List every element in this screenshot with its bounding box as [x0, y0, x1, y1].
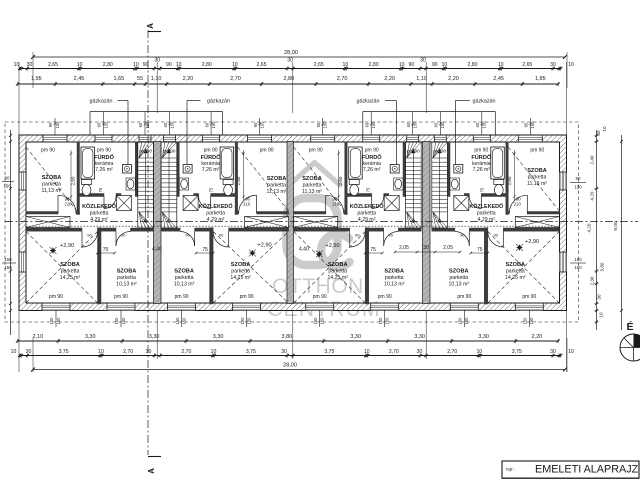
svg-text:SZOBA: SZOBA — [328, 262, 348, 268]
svg-text:150: 150 — [240, 317, 245, 325]
svg-text:gázkazán: gázkazán — [207, 99, 230, 105]
svg-text:2,20: 2,20 — [384, 76, 395, 82]
svg-text:SZOBA: SZOBA — [384, 269, 404, 275]
svg-text:90: 90 — [460, 233, 465, 238]
svg-text:2,70: 2,70 — [230, 76, 241, 82]
svg-text:2,40: 2,40 — [590, 155, 595, 164]
svg-text:SZOBA: SZOBA — [42, 175, 62, 181]
svg-text:pm 90: pm 90 — [365, 148, 379, 154]
svg-text:3,30: 3,30 — [414, 334, 425, 340]
svg-text:28,00: 28,00 — [283, 363, 297, 369]
svg-text:11,13 m²: 11,13 m² — [266, 189, 286, 195]
svg-text:75: 75 — [370, 247, 376, 253]
svg-text:2,80: 2,80 — [369, 62, 379, 68]
svg-text:2,80: 2,80 — [202, 62, 212, 68]
svg-text:150: 150 — [114, 317, 119, 325]
svg-text:30: 30 — [420, 58, 426, 64]
svg-text:60: 60 — [406, 122, 411, 127]
svg-text:60: 60 — [97, 122, 102, 127]
svg-text:+2,90: +2,90 — [257, 243, 271, 249]
svg-text:90: 90 — [388, 233, 393, 238]
svg-text:1,95: 1,95 — [31, 76, 42, 82]
svg-text:10: 10 — [133, 62, 139, 68]
svg-text:2,65: 2,65 — [522, 62, 532, 68]
svg-text:pm 90: pm 90 — [175, 294, 189, 300]
svg-text:150: 150 — [458, 317, 463, 325]
svg-text:2,45: 2,45 — [493, 76, 504, 82]
svg-text:2,70: 2,70 — [389, 349, 399, 355]
svg-text:4,40: 4,40 — [152, 247, 162, 253]
svg-text:60: 60 — [434, 122, 439, 127]
svg-text:4,20: 4,20 — [587, 223, 592, 232]
svg-text:90: 90 — [253, 122, 258, 127]
svg-text:150: 150 — [574, 185, 582, 190]
svg-text:parketta: parketta — [61, 269, 80, 275]
svg-text:SZOBA: SZOBA — [302, 176, 322, 182]
svg-text:28,00: 28,00 — [284, 50, 298, 56]
svg-text:30: 30 — [550, 62, 556, 68]
svg-text:pm 90: pm 90 — [204, 148, 218, 154]
svg-text:1,85: 1,85 — [535, 76, 546, 82]
svg-text:SZOBA: SZOBA — [527, 168, 547, 174]
svg-text:7,26 m²: 7,26 m² — [473, 167, 491, 173]
svg-text:4,29 m²: 4,29 m² — [478, 217, 496, 223]
svg-text:pm 90: pm 90 — [474, 148, 488, 154]
svg-text:KÖZLEKEDŐ: KÖZLEKEDŐ — [82, 203, 116, 210]
svg-text:pm 90: pm 90 — [407, 149, 420, 154]
svg-text:150: 150 — [103, 121, 108, 129]
svg-text:2,60: 2,60 — [507, 176, 512, 185]
svg-text:150: 150 — [320, 317, 325, 325]
svg-text:parketta: parketta — [117, 275, 136, 281]
svg-text:75: 75 — [209, 187, 214, 192]
svg-text:3,75: 3,75 — [324, 349, 334, 355]
svg-text:SZOBA: SZOBA — [267, 176, 287, 182]
svg-text:+2,90: +2,90 — [60, 243, 74, 249]
svg-text:10: 10 — [599, 312, 604, 318]
svg-text:90: 90 — [432, 62, 438, 68]
svg-text:2,05: 2,05 — [399, 245, 409, 251]
svg-text:150: 150 — [4, 265, 12, 270]
svg-text:30: 30 — [596, 130, 601, 136]
svg-text:KÖZLEKEDŐ: KÖZLEKEDŐ — [469, 203, 503, 210]
svg-text:150: 150 — [121, 317, 126, 325]
svg-text:150: 150 — [482, 121, 487, 129]
svg-text:90: 90 — [5, 176, 10, 181]
svg-text:pm 90: pm 90 — [522, 294, 536, 300]
svg-text:150: 150 — [145, 121, 150, 129]
svg-text:4,20: 4,20 — [590, 191, 595, 200]
svg-text:SZOBA: SZOBA — [231, 262, 251, 268]
svg-text:30: 30 — [146, 349, 152, 355]
svg-text:60: 60 — [204, 122, 209, 127]
svg-text:gázkazán: gázkazán — [356, 99, 379, 105]
svg-text:pm 90: pm 90 — [309, 148, 323, 154]
svg-text:+2,90: +2,90 — [325, 243, 339, 249]
svg-text:2,70: 2,70 — [447, 349, 457, 355]
svg-text:11,13 m²: 11,13 m² — [41, 188, 61, 194]
svg-text:2,20: 2,20 — [532, 334, 543, 340]
svg-text:2,60: 2,60 — [236, 176, 241, 185]
svg-text:30: 30 — [597, 294, 602, 300]
svg-text:90: 90 — [166, 62, 172, 68]
svg-text:150: 150 — [371, 121, 376, 129]
svg-text:pm 90: pm 90 — [41, 148, 55, 154]
svg-text:A: A — [147, 468, 156, 474]
svg-text:SZOBA: SZOBA — [60, 262, 80, 268]
svg-text:2,45: 2,45 — [74, 76, 85, 82]
svg-text:90: 90 — [121, 233, 126, 238]
svg-text:10: 10 — [343, 62, 349, 68]
svg-text:2,05: 2,05 — [443, 245, 453, 251]
svg-text:2,80: 2,80 — [467, 62, 477, 68]
svg-text:90: 90 — [219, 233, 224, 238]
svg-text:2,30: 2,30 — [590, 276, 595, 285]
svg-text:A: A — [146, 23, 155, 29]
svg-text:gázkazán: gázkazán — [472, 99, 495, 105]
svg-text:1,10: 1,10 — [416, 76, 427, 82]
svg-text:10: 10 — [442, 62, 448, 68]
svg-text:150: 150 — [574, 257, 582, 262]
svg-text:10: 10 — [176, 62, 182, 68]
svg-text:3,30: 3,30 — [478, 334, 489, 340]
svg-text:4,40: 4,40 — [299, 247, 309, 253]
svg-text:150: 150 — [323, 121, 328, 129]
svg-text:90: 90 — [87, 233, 92, 238]
svg-text:90: 90 — [143, 62, 149, 68]
svg-text:10: 10 — [77, 62, 83, 68]
svg-text:150: 150 — [181, 317, 186, 325]
svg-text:+2,90: +2,90 — [525, 239, 539, 245]
svg-text:2,65: 2,65 — [256, 62, 266, 68]
svg-text:3,80: 3,80 — [282, 334, 293, 340]
svg-text:75: 75 — [477, 247, 483, 253]
svg-text:60: 60 — [138, 122, 143, 127]
svg-text:SZOBA: SZOBA — [117, 269, 137, 275]
svg-text:4,29 m²: 4,29 m² — [358, 217, 376, 223]
svg-text:2,60: 2,60 — [338, 176, 343, 185]
svg-text:10: 10 — [14, 62, 20, 68]
svg-text:150: 150 — [169, 121, 174, 129]
svg-text:150: 150 — [464, 317, 469, 325]
svg-text:14,25 m²: 14,25 m² — [327, 275, 348, 281]
svg-text:150: 150 — [3, 184, 11, 189]
svg-text:11,13 m²: 11,13 m² — [302, 189, 322, 195]
svg-text:SZOBA: SZOBA — [506, 262, 526, 268]
svg-text:150: 150 — [175, 317, 180, 325]
svg-text:3,30: 3,30 — [213, 334, 224, 340]
svg-text:3,30: 3,30 — [350, 334, 361, 340]
svg-text:parketta: parketta — [385, 275, 404, 281]
svg-text:rajz :: rajz : — [506, 467, 515, 472]
svg-text:10,13 m²: 10,13 m² — [116, 282, 137, 288]
svg-text:210: 210 — [243, 202, 251, 207]
svg-text:150: 150 — [385, 317, 390, 325]
svg-text:pm 90: pm 90 — [260, 148, 274, 154]
svg-text:30: 30 — [423, 245, 429, 251]
svg-text:30: 30 — [287, 58, 293, 64]
svg-text:parketta: parketta — [175, 275, 194, 281]
svg-text:SZOBA: SZOBA — [449, 269, 469, 275]
svg-text:150: 150 — [49, 317, 54, 325]
svg-text:pm 90: pm 90 — [49, 294, 63, 300]
svg-text:7,26 m²: 7,26 m² — [363, 167, 381, 173]
svg-text:FÜRDŐ: FÜRDŐ — [201, 154, 222, 161]
svg-text:2,65: 2,65 — [314, 62, 324, 68]
svg-text:gázkazán: gázkazán — [89, 99, 112, 105]
svg-text:2,70: 2,70 — [337, 76, 348, 82]
svg-text:150: 150 — [211, 121, 216, 129]
svg-text:3,30: 3,30 — [149, 334, 160, 340]
svg-text:1,65: 1,65 — [113, 76, 124, 82]
svg-text:2,65: 2,65 — [48, 62, 58, 68]
svg-text:KÖZLEKEDŐ: KÖZLEKEDŐ — [350, 203, 384, 210]
svg-text:75: 75 — [202, 247, 208, 253]
svg-text:parketta: parketta — [231, 269, 250, 275]
svg-text:150: 150 — [440, 121, 445, 129]
svg-text:10,13 m²: 10,13 m² — [449, 282, 470, 288]
svg-text:2,80: 2,80 — [103, 62, 113, 68]
svg-text:14,25 m²: 14,25 m² — [230, 275, 251, 281]
svg-text:150: 150 — [378, 317, 383, 325]
svg-text:75: 75 — [479, 187, 484, 192]
svg-text:210: 210 — [65, 202, 73, 207]
svg-text:14,25 m²: 14,25 m² — [505, 275, 526, 281]
svg-text:10: 10 — [364, 349, 370, 355]
svg-text:150: 150 — [529, 317, 534, 325]
svg-text:pm 90: pm 90 — [378, 294, 392, 300]
svg-text:FÜRDŐ: FÜRDŐ — [362, 154, 383, 161]
svg-text:parketta: parketta — [90, 211, 109, 217]
svg-text:parketta: parketta — [528, 175, 547, 181]
svg-text:parketta: parketta — [42, 182, 61, 188]
svg-text:pm 90: pm 90 — [313, 294, 327, 300]
svg-text:É: É — [626, 320, 633, 333]
svg-text:10,13 m²: 10,13 m² — [174, 282, 195, 288]
svg-text:pm 90: pm 90 — [163, 149, 176, 154]
svg-text:150: 150 — [4, 257, 12, 262]
svg-text:150: 150 — [55, 121, 60, 129]
svg-text:10: 10 — [476, 349, 482, 355]
svg-text:10: 10 — [98, 349, 104, 355]
svg-text:10: 10 — [498, 62, 504, 68]
svg-text:10: 10 — [232, 62, 238, 68]
svg-text:10: 10 — [399, 62, 405, 68]
svg-text:60: 60 — [364, 122, 369, 127]
svg-text:55: 55 — [137, 76, 143, 82]
svg-text:SZOBA: SZOBA — [174, 269, 194, 275]
svg-text:2,10: 2,10 — [32, 334, 43, 340]
svg-text:150: 150 — [313, 317, 318, 325]
svg-text:pm 90: pm 90 — [530, 148, 544, 154]
svg-text:90: 90 — [355, 233, 360, 238]
svg-text:parketta: parketta — [477, 211, 496, 217]
svg-text:FÜRDŐ: FÜRDŐ — [94, 154, 115, 161]
svg-text:7,26 m²: 7,26 m² — [95, 167, 113, 173]
svg-text:90: 90 — [576, 176, 581, 181]
svg-text:30: 30 — [417, 349, 423, 355]
svg-text:10: 10 — [602, 126, 607, 132]
svg-text:90: 90 — [409, 62, 415, 68]
svg-text:75: 75 — [366, 187, 371, 192]
svg-text:EMELETI ALAPRAJZ: EMELETI ALAPRAJZ — [535, 464, 639, 476]
svg-text:150: 150 — [574, 265, 582, 270]
svg-text:30: 30 — [27, 62, 33, 68]
svg-text:4,29 m²: 4,29 m² — [207, 217, 225, 223]
svg-text:10,13 m²: 10,13 m² — [384, 282, 405, 288]
svg-text:9,00: 9,00 — [613, 221, 619, 231]
svg-text:90: 90 — [48, 122, 53, 127]
svg-text:3,75: 3,75 — [59, 349, 69, 355]
svg-text:60: 60 — [475, 122, 480, 127]
svg-text:11,13 m²: 11,13 m² — [527, 181, 547, 187]
svg-text:150: 150 — [413, 121, 418, 129]
svg-text:90: 90 — [524, 122, 529, 127]
svg-text:pm 90: pm 90 — [97, 148, 111, 154]
svg-text:pm 90: pm 90 — [139, 149, 152, 154]
svg-text:150: 150 — [259, 121, 264, 129]
svg-text:pm 90: pm 90 — [240, 294, 254, 300]
svg-text:10: 10 — [211, 349, 217, 355]
svg-text:2,20: 2,20 — [183, 76, 194, 82]
svg-text:3,75: 3,75 — [246, 349, 256, 355]
svg-text:14,25 m²: 14,25 m² — [60, 275, 81, 281]
svg-text:pm 90: pm 90 — [433, 149, 446, 154]
svg-text:parketta: parketta — [303, 183, 322, 189]
svg-text:90: 90 — [494, 233, 499, 238]
svg-text:150: 150 — [530, 121, 535, 129]
svg-text:KÖZLEKEDŐ: KÖZLEKEDŐ — [199, 203, 233, 210]
svg-text:3,75: 3,75 — [512, 349, 522, 355]
svg-text:90: 90 — [316, 122, 321, 127]
svg-text:30: 30 — [281, 349, 287, 355]
svg-text:parketta: parketta — [506, 269, 525, 275]
svg-text:parketta: parketta — [357, 211, 376, 217]
svg-text:3,30: 3,30 — [85, 334, 96, 340]
svg-text:30: 30 — [26, 349, 32, 355]
svg-text:pm 90: pm 90 — [114, 294, 128, 300]
svg-text:10: 10 — [11, 349, 17, 355]
svg-text:1,10: 1,10 — [151, 76, 162, 82]
svg-text:10: 10 — [568, 62, 574, 68]
svg-text:parketta: parketta — [449, 275, 468, 281]
svg-text:FÜRDŐ: FÜRDŐ — [471, 154, 492, 161]
svg-text:75: 75 — [98, 187, 103, 192]
svg-text:75: 75 — [103, 247, 109, 253]
svg-text:pm 90: pm 90 — [457, 294, 471, 300]
svg-text:150: 150 — [523, 317, 528, 325]
svg-text:parketta: parketta — [267, 183, 286, 189]
svg-text:4,29 m²: 4,29 m² — [90, 217, 108, 223]
svg-text:90: 90 — [185, 233, 190, 238]
svg-text:60: 60 — [163, 122, 168, 127]
svg-text:210: 210 — [332, 202, 340, 207]
svg-text:2,20: 2,20 — [448, 76, 459, 82]
svg-text:150: 150 — [56, 317, 61, 325]
svg-text:parketta: parketta — [328, 269, 347, 275]
svg-text:150: 150 — [246, 317, 251, 325]
svg-text:10: 10 — [568, 349, 574, 355]
svg-text:2,70: 2,70 — [181, 349, 191, 355]
svg-text:210: 210 — [514, 202, 522, 207]
svg-text:2,60: 2,60 — [71, 176, 76, 185]
svg-text:3,80: 3,80 — [600, 262, 605, 271]
svg-text:2,70: 2,70 — [123, 349, 133, 355]
svg-text:7,26 m²: 7,26 m² — [202, 167, 220, 173]
svg-text:parketta: parketta — [206, 211, 225, 217]
svg-text:30: 30 — [550, 349, 556, 355]
